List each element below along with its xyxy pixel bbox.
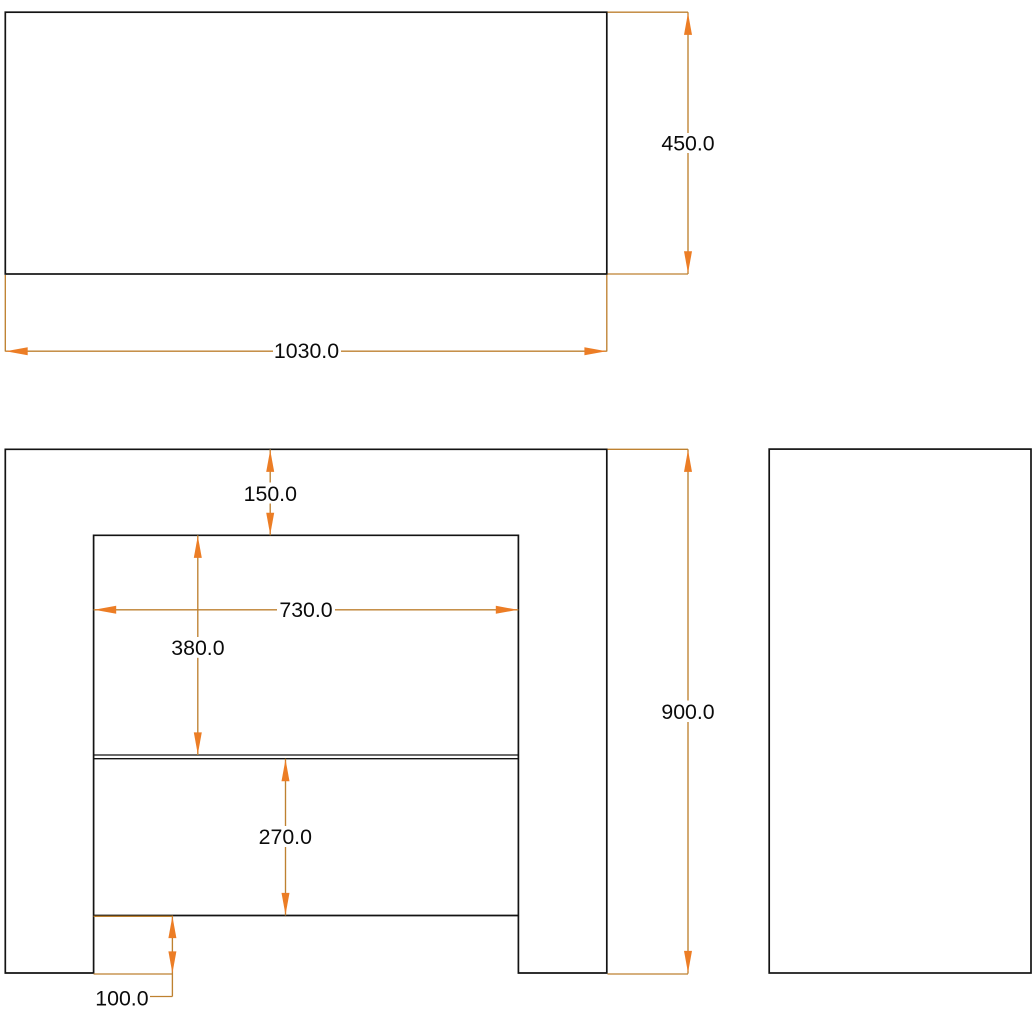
arrow 150 down — [266, 513, 274, 535]
dim line 900 upper segment — [687, 449, 689, 700]
dim line 150 upper segment — [269, 449, 271, 482]
svg-text:270.0: 270.0 — [259, 825, 312, 849]
dim line 730 right segment — [335, 609, 518, 611]
leader horizontal for 100 text — [150, 996, 172, 998]
svg-text:1030.0: 1030.0 — [274, 339, 339, 363]
dim line 1030 left segment — [5, 350, 273, 352]
arrow 270 down — [282, 893, 290, 915]
ext line left for 1030 dim — [4, 275, 6, 352]
arrow 730 left — [94, 606, 116, 614]
dim line 1030 right segment — [341, 350, 607, 352]
arrow 450 up — [684, 13, 692, 35]
arrow 450 down — [684, 251, 692, 273]
svg-text:380.0: 380.0 — [171, 636, 224, 660]
dim line 150 lower segment — [269, 504, 271, 536]
ext line top for 450 dim — [608, 11, 689, 13]
plan view rectangle (top) — [5, 12, 607, 274]
arrow 1030 left — [6, 347, 28, 355]
arrow 100 down — [168, 951, 176, 973]
arrow 380 up — [194, 536, 202, 558]
arrow 900 down — [684, 951, 692, 973]
svg-text:900.0: 900.0 — [661, 700, 714, 724]
dim line 450 upper segment — [687, 12, 689, 133]
dim line 270 upper segment — [285, 759, 287, 826]
arrow 270 up — [282, 759, 290, 781]
arrow 150 up — [266, 450, 274, 472]
dim line 900 lower segment — [687, 722, 689, 974]
arrow 730 right — [496, 606, 518, 614]
arrow 900 up — [684, 450, 692, 472]
drawer divider line upper — [94, 754, 519, 756]
dim line 270 lower segment — [285, 847, 287, 916]
dim line 450 lower segment — [687, 153, 689, 274]
arrow 100 up — [168, 916, 176, 938]
drawer divider line lower — [94, 758, 519, 760]
drawer bottom line — [94, 915, 519, 917]
svg-text:450.0: 450.0 — [661, 132, 714, 156]
ext line bottom for 900 dim — [608, 973, 689, 975]
side view rectangle (right) — [769, 449, 1031, 973]
dim line 730 left segment — [94, 609, 277, 611]
arrow 380 down — [194, 732, 202, 754]
dim line 380 lower segment — [197, 658, 199, 755]
svg-text:100.0: 100.0 — [95, 987, 148, 1010]
svg-text:730.0: 730.0 — [279, 598, 332, 622]
front view outline (bottom-left desk shape) — [5, 449, 607, 973]
ext line bottom for 100 dim — [94, 973, 173, 975]
ext line top for 100 dim — [94, 915, 173, 917]
dim line 380 upper segment — [197, 535, 199, 637]
svg-text:150.0: 150.0 — [244, 482, 297, 506]
arrow 1030 right — [584, 347, 606, 355]
ext line top for 900 dim — [608, 448, 689, 450]
ext line bottom for 450 dim — [608, 273, 689, 275]
ext line right for 1030 dim — [606, 275, 608, 352]
dim line 100 vertical with leader tail — [171, 916, 173, 997]
